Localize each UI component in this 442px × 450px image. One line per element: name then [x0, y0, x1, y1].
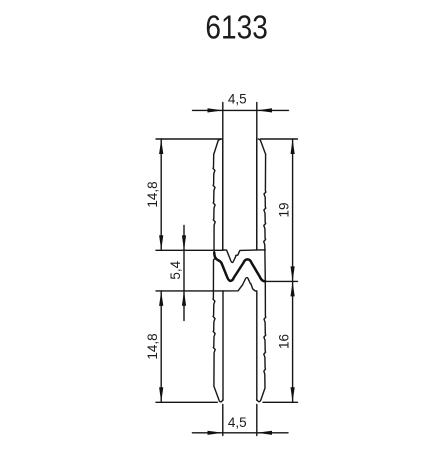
svg-text:16: 16	[277, 334, 292, 349]
svg-text:4,5: 4,5	[228, 91, 247, 106]
svg-text:6133: 6133	[205, 9, 267, 46]
svg-text:14,8: 14,8	[145, 181, 160, 207]
svg-text:4,5: 4,5	[228, 415, 247, 430]
svg-text:5,4: 5,4	[168, 260, 183, 279]
svg-text:14,8: 14,8	[145, 333, 160, 359]
svg-text:19: 19	[277, 202, 292, 217]
